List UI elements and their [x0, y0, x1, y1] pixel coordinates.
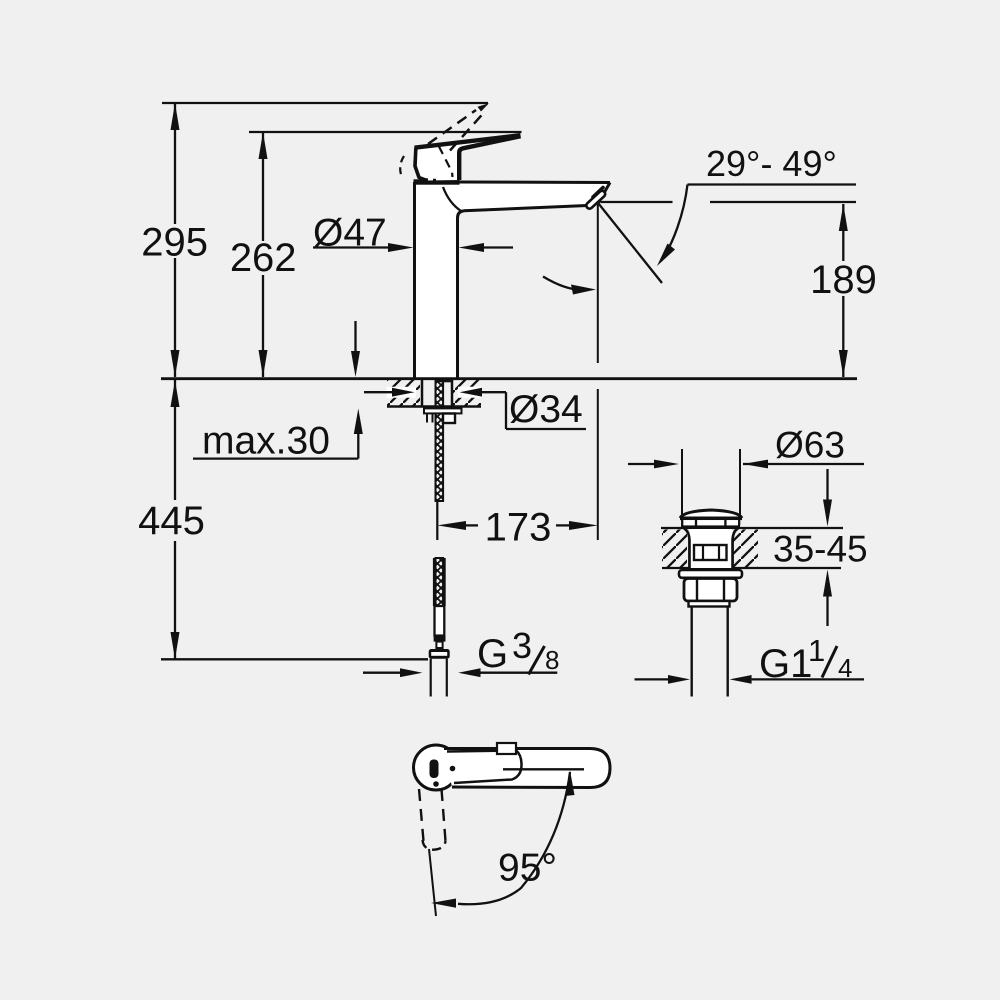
svg-text:29°- 49°: 29°- 49°	[706, 143, 837, 184]
shank collar left wall 2	[432, 414, 434, 423]
angle arc	[661, 185, 688, 262]
label Ø34 leader	[387, 387, 417, 398]
dimension G1 1/4	[635, 678, 672, 680]
dimension 262 vertical line	[262, 132, 264, 241]
basin top line	[661, 527, 843, 529]
handle hidden dashed line	[439, 146, 453, 177]
basin hatch right	[732, 530, 758, 568]
handle raised dashed outline upper	[428, 110, 476, 144]
drain cap dome	[680, 510, 742, 518]
svg-text:189: 189	[810, 258, 877, 302]
counter hatch right	[452, 380, 481, 406]
svg-text:295: 295	[141, 221, 208, 265]
drain cap rim	[680, 517, 742, 521]
wire reference line 262	[249, 131, 522, 133]
spout underside	[464, 206, 587, 211]
svg-text:1: 1	[808, 633, 825, 668]
dimension 95 arc	[458, 772, 570, 904]
counter top line	[161, 377, 857, 380]
spout tip face	[599, 183, 611, 203]
hose nipple	[443, 414, 455, 424]
svg-text:G1: G1	[759, 642, 812, 686]
dimension max30 upper arrow	[354, 321, 356, 352]
dimension 173	[436, 499, 438, 540]
hose collar	[434, 636, 446, 642]
hose end tube	[435, 606, 445, 636]
drain cap lower bar	[681, 525, 740, 528]
dimension Ø47 right arrow	[480, 246, 513, 248]
wire top reference line 295	[162, 102, 488, 104]
flow arrow	[543, 277, 585, 290]
basin bottom line	[662, 567, 841, 569]
counter hatch left	[387, 380, 420, 406]
top view axis extension	[429, 849, 436, 916]
handle bottom dashes	[420, 179, 436, 180]
svg-text:G: G	[477, 632, 508, 676]
body top cap under handle	[414, 179, 460, 184]
top view dashed lever down	[419, 789, 424, 841]
handle pivot body	[415, 136, 520, 181]
handle lever top edge	[415, 135, 521, 148]
svg-text:3: 3	[512, 625, 532, 666]
shank right wall	[451, 380, 454, 406]
shank left wall	[421, 380, 424, 406]
svg-text:95°: 95°	[498, 847, 557, 890]
rod top bar	[436, 380, 452, 383]
top view pivot bar	[430, 760, 439, 779]
connection pipe G38	[430, 659, 432, 697]
handle lever underside	[459, 136, 520, 180]
dimension 295 vertical line	[174, 103, 176, 224]
angle reference line upper	[688, 183, 857, 185]
dimension 35-45	[826, 469, 828, 500]
top view pivot circle	[414, 745, 459, 790]
dimension Ø47 left arrow	[313, 246, 395, 248]
handle raised tip	[478, 103, 490, 111]
basin hatch left	[662, 530, 687, 568]
threaded rod	[436, 381, 444, 502]
spout top edge	[456, 181, 610, 185]
svg-text:35-45: 35-45	[773, 529, 868, 570]
bottom reference line	[161, 658, 428, 660]
dimension 189 vertical	[842, 204, 844, 261]
rod centerline extension	[436, 501, 438, 540]
horseshoe washer	[424, 408, 462, 413]
drain nut bottom band	[689, 601, 730, 607]
top view lever outer	[444, 749, 610, 788]
faucet body left wall	[413, 182, 416, 378]
svg-text:4: 4	[838, 653, 852, 683]
top view pivot dots	[450, 766, 456, 772]
top view lever inner	[447, 751, 522, 783]
top view lever tab	[497, 743, 516, 754]
drain washer	[679, 570, 742, 578]
flexible hose braided	[436, 558, 444, 606]
spout tip extension line	[597, 203, 599, 363]
hose nut	[429, 649, 450, 659]
svg-text:Ø34: Ø34	[509, 388, 583, 431]
svg-text:Ø63: Ø63	[775, 425, 845, 466]
svg-text:8: 8	[545, 645, 559, 675]
counter bottom line	[387, 405, 481, 408]
handle raised dashed outline lower	[450, 113, 484, 151]
drain tailpipe	[691, 607, 693, 697]
svg-text:173: 173	[485, 506, 552, 550]
dimension max30 lower arrow	[354, 409, 363, 435]
faucet body right wall	[458, 211, 465, 378]
dimension 445 vertical	[174, 380, 176, 500]
aerator outlet	[593, 188, 603, 198]
faucet body white fill	[415, 182, 611, 378]
dimension Ø63	[681, 449, 683, 516]
drain lock nut	[684, 579, 737, 602]
angle reference line lower	[601, 201, 673, 203]
dimension G38	[363, 672, 403, 674]
shank collar left wall	[426, 414, 428, 423]
svg-text:445: 445	[138, 499, 205, 543]
spray direction line	[599, 204, 663, 284]
drain body	[684, 529, 690, 569]
body inner transition curve	[443, 187, 461, 211]
handle raised dashed back arc	[400, 156, 404, 178]
drain body window	[694, 545, 727, 560]
svg-text:max.30: max.30	[202, 420, 330, 463]
svg-text:262: 262	[230, 236, 297, 280]
top view axis line	[503, 768, 584, 770]
